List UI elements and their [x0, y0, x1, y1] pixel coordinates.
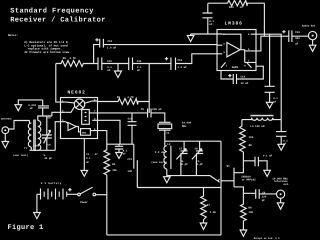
wire antenna to T1: [9, 121, 30, 130]
wire R7 to ground: [203, 220, 205, 224]
wire gate node rail A: [137, 187, 221, 189]
svg-text:uF: uF: [209, 23, 213, 26]
svg-text:2.2 uH: 2.2 uH: [155, 151, 165, 154]
wire switch to supply riser: [96, 194, 107, 196]
wire C12 to LM386 pin3: [103, 44, 217, 46]
svg-text:C14: C14: [241, 75, 246, 78]
svg-text:out.: out.: [284, 183, 290, 186]
resistor R5: [56, 57, 98, 66]
capacitor C19 bypass: [115, 144, 128, 155]
capacitor C16: [282, 30, 300, 45]
wire T1 bottom rail: [30, 149, 56, 151]
capacitor C17 zobel: [203, 3, 215, 34]
wire NE602 ground stub: [83, 139, 85, 171]
svg-text:4.7K: 4.7K: [127, 96, 134, 99]
wire C12 left to row: [94, 45, 100, 64]
ground R7: [200, 223, 207, 230]
svg-text:4.7K: 4.7K: [70, 57, 77, 60]
crystal Y1: [158, 122, 192, 135]
svg-text:R9: R9: [248, 206, 252, 209]
svg-text:330: 330: [295, 37, 300, 40]
ground between C13 C14: [115, 64, 122, 78]
svg-text:9 pF: 9 pF: [197, 163, 204, 166]
svg-text:C11: C11: [127, 158, 132, 161]
inductor L2: [151, 143, 171, 169]
wire pin2: [52, 112, 61, 116]
NE602 internal osc block: [81, 129, 93, 136]
svg-text:10 uF: 10 uF: [241, 82, 249, 85]
wire R4 to switch node: [106, 175, 108, 235]
capacitor C20 rail bypass: [276, 120, 288, 146]
svg-text:C8: C8: [195, 147, 199, 150]
svg-text:uF: uF: [295, 42, 299, 45]
svg-text:220: 220: [262, 195, 267, 198]
svg-text:uF: uF: [107, 69, 111, 72]
ground antenna jack: [2, 134, 9, 148]
svg-text:GAIN: GAIN: [232, 66, 239, 69]
NE602 internal mixer: [66, 99, 92, 112]
wire C22 to cal jack: [259, 193, 276, 195]
capacitor C5: [28, 100, 49, 116]
svg-text:OSC: OSC: [82, 132, 87, 135]
svg-text:R6: R6: [117, 96, 121, 99]
svg-text:R7: R7: [207, 204, 211, 207]
ground C5: [15, 105, 22, 111]
svg-text:0.1: 0.1: [86, 157, 91, 160]
svg-text:C15: C15: [178, 59, 183, 62]
ground battery: [34, 213, 41, 219]
ground NE602: [81, 170, 88, 176]
wire Y1 to L2: [164, 130, 166, 146]
capacitor C22 output: [243, 189, 266, 202]
title text: [10, 6, 106, 24]
svg-text:C6: C6: [48, 144, 52, 147]
resistor R7: [201, 188, 217, 220]
svg-text:C14: C14: [137, 60, 142, 63]
audio out jack J2: [302, 24, 317, 39]
svg-text:1.0 uF: 1.0 uF: [177, 66, 187, 69]
transistor Q1: [227, 152, 257, 193]
capacitor C21 drain bypass: [243, 155, 272, 171]
transformer T1: [13, 120, 41, 157]
NE602 pin stubs right: [92, 98, 97, 131]
svg-text:10: 10: [240, 6, 244, 9]
LM386 pin stubs right: [248, 33, 256, 63]
wire NE602 pin6: [98, 120, 121, 144]
figure caption: [8, 223, 44, 232]
svg-text:Power: Power: [80, 201, 88, 204]
svg-text:C9: C9: [141, 108, 145, 111]
wire LM386 pin2 ground branch: [191, 33, 217, 35]
svg-text:Receiver / Calibrator: Receiver / Calibrator: [10, 15, 106, 24]
ground C21: [264, 170, 271, 176]
svg-text:100: 100: [127, 170, 132, 173]
svg-text:R4: R4: [112, 163, 116, 166]
ground R9: [240, 230, 247, 236]
wire C5 top to ground: [18, 100, 42, 105]
wire gate: [221, 180, 234, 182]
svg-text:40 pF: 40 pF: [44, 157, 52, 160]
wire T1 secondary top to input node: [38, 116, 52, 121]
ground C20: [278, 144, 285, 150]
resistor R4: [86, 131, 117, 175]
wire C13 to C14: [102, 63, 129, 65]
capacitor C14: [129, 58, 142, 73]
capacitor C12: [95, 38, 116, 50]
svg-text:L2: L2: [167, 143, 171, 146]
capacitor C10: [128, 113, 137, 144]
svg-text:T1: T1: [24, 147, 28, 150]
svg-text:Audio Out: Audio Out: [302, 24, 316, 27]
capacitor C15: [165, 57, 187, 70]
ground L2: [164, 177, 171, 183]
svg-text:100: 100: [249, 136, 254, 139]
wire battery to ground: [36, 194, 38, 212]
wire supply row NE602: [107, 143, 134, 145]
wire row junction riser: [148, 64, 150, 113]
wire LM386 output: [256, 36, 289, 51]
svg-text:Q1: Q1: [227, 164, 231, 167]
capacitor C14b gain: [221, 66, 263, 85]
wire R9 to ground: [242, 221, 244, 230]
svg-text:C7: C7: [179, 147, 183, 150]
svg-text:1.0k: 1.0k: [210, 211, 217, 214]
svg-text:C13: C13: [107, 60, 112, 63]
resistor R8: [240, 120, 254, 152]
ground LM386 pin2: [187, 34, 194, 42]
svg-text:C16: C16: [295, 31, 300, 34]
svg-text:R5: R5: [63, 57, 67, 60]
ground NE602 osc stub arrow: [83, 175, 85, 177]
svg-text:300: 300: [35, 145, 40, 148]
svg-text:MHz: MHz: [182, 125, 187, 128]
inductor L4: [242, 115, 281, 128]
wire C9 to crystal: [151, 113, 165, 122]
wire T1 primary bottom to common: [30, 147, 32, 150]
wire R5 to NE602 pin1: [56, 64, 61, 103]
NE602 internal osc amp: [66, 122, 81, 132]
wire tank top rail: [165, 140, 221, 142]
NE602 pin stubs left: [61, 99, 66, 122]
svg-text:Antenna: Antenna: [1, 118, 12, 121]
capacitor C18 bypass: [265, 34, 279, 103]
IC NE602 U1: [61, 90, 98, 139]
svg-text:(see text): (see text): [151, 161, 167, 164]
svg-text:uF: uF: [137, 69, 141, 72]
resistor R10 zobel: [208, 0, 265, 9]
ground C18: [266, 102, 273, 108]
svg-text:(see text): (see text): [13, 154, 29, 157]
wire pin3 riser: [55, 122, 60, 151]
svg-text:47: 47: [95, 153, 99, 156]
wire zobel to output: [263, 3, 265, 36]
wire tank to gate rail: [220, 141, 222, 235]
resistor R9: [241, 193, 254, 221]
svg-text:uF: uF: [123, 153, 127, 156]
wire LM386 pin6 supply rail: [256, 34, 281, 119]
battery B1: [37, 182, 78, 199]
svg-text:L4 100 uH: L4 100 uH: [250, 125, 264, 128]
LM386 gain pin stubs: [221, 62, 252, 69]
svg-text:Notes:: Notes:: [8, 34, 18, 37]
svg-text:Except as ind. 1 %: Except as ind. 1 %: [254, 237, 280, 240]
svg-text:IC Pinouts are bottom view: IC Pinouts are bottom view: [24, 50, 69, 54]
svg-text:C10: C10: [128, 117, 133, 120]
notes text: [8, 34, 70, 54]
svg-text:C6: C6: [48, 117, 52, 120]
trimmer capacitor C8: [192, 141, 203, 175]
IC LM386 U2: [217, 21, 256, 71]
svg-text:C12: C12: [108, 40, 113, 43]
svg-text:pF: pF: [262, 199, 266, 202]
antenna jack J1: [1, 118, 12, 134]
capacitor C9: [141, 108, 162, 118]
svg-text:or MPF102: or MPF102: [242, 178, 256, 181]
svg-text:R10: R10: [229, 6, 234, 9]
svg-text:C3: C3: [86, 153, 90, 156]
capacitor C11: [127, 144, 137, 187]
node junction gate: [218, 179, 220, 182]
resistor R6: [98, 96, 150, 105]
switch S1: [78, 187, 96, 204]
NE602 internal bias block: [82, 110, 93, 125]
svg-text:replace with jumper.: replace with jumper.: [28, 47, 63, 51]
trimmer capacitor C7: [176, 141, 188, 175]
ground audio jack: [309, 40, 316, 52]
svg-text:LM386: LM386: [225, 21, 243, 27]
wire NE602 pin7: [98, 112, 148, 114]
capacitor C13: [98, 58, 112, 73]
LM386 pin stubs left: [217, 33, 225, 54]
wire bottom rail: [107, 234, 221, 236]
svg-text:Figure 1: Figure 1: [8, 223, 44, 232]
cal out jack J3: [272, 177, 289, 198]
svg-text:Standard Frequency: Standard Frequency: [10, 6, 94, 15]
svg-text:1.0 uF: 1.0 uF: [107, 47, 117, 50]
wire C15 to LM386 pin4: [176, 54, 218, 64]
wire C16 to audio jack: [292, 35, 309, 37]
wire tank bottom rail: [167, 176, 218, 181]
svg-text:40 pF: 40 pF: [180, 163, 188, 166]
svg-text:NE602: NE602: [68, 90, 86, 96]
trimmer capacitor C6: [35, 116, 53, 160]
svg-text:R8: R8: [249, 144, 253, 147]
svg-text:A) Resistors are 5% 1/4 W: A) Resistors are 5% 1/4 W: [24, 40, 68, 44]
svg-text:0.1 uF: 0.1 uF: [263, 155, 273, 158]
svg-text:10k: 10k: [112, 169, 117, 172]
svg-text:100: 100: [248, 211, 253, 214]
svg-text:220 pF: 220 pF: [152, 108, 162, 111]
wire L2 bottom: [166, 169, 168, 177]
svg-text:uF: uF: [30, 107, 34, 110]
ground cal jack: [277, 198, 284, 209]
svg-text:uF: uF: [86, 161, 90, 164]
ground C19: [116, 153, 123, 159]
svg-text:9 V battery: 9 V battery: [41, 182, 62, 185]
LM386 internal op-amp: [222, 34, 250, 62]
wire C14 to C15: [133, 63, 171, 65]
svg-text:Y1: Y1: [166, 132, 170, 135]
